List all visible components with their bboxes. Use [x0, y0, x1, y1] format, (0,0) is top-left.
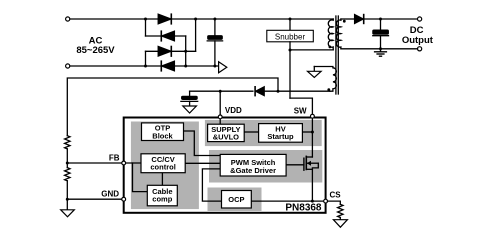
diode D1	[158, 14, 171, 24]
svg-text:&Gate Driver: &Gate Driver	[230, 166, 276, 175]
ground CS	[333, 220, 347, 228]
svg-text:85~265V: 85~265V	[76, 45, 115, 56]
wire bridge left vertical top	[145, 19, 147, 36]
wire CCCV to PWM	[185, 162, 220, 164]
wire bridge mid vertical	[185, 36, 187, 66]
DC output terminal top	[418, 17, 422, 21]
mosfet Q1	[304, 156, 318, 170]
wire R3 to ground	[339, 218, 341, 220]
wire SW internal	[311, 118, 313, 158]
box HV Startup	[259, 124, 303, 143]
transformer secondary winding	[336, 19, 341, 49]
primary polarity dot	[329, 46, 332, 49]
pin GND	[122, 197, 126, 201]
node source-CS	[311, 200, 314, 203]
node HV-SW	[311, 131, 314, 134]
svg-text:PN8368: PN8368	[285, 203, 322, 214]
diode D6 VDD	[255, 87, 264, 96]
pin SW	[311, 114, 315, 118]
wire secondary bottom	[341, 48, 418, 50]
node VDD	[219, 90, 222, 93]
snubber drop wire	[289, 19, 291, 30]
CS external wire	[328, 201, 341, 204]
wire PWM to OCP	[202, 169, 221, 201]
wire FB internal	[124, 162, 141, 164]
secondary polarity dot	[343, 20, 346, 23]
resistor R2	[65, 168, 70, 181]
diode D2	[161, 31, 174, 41]
wire bridge row3	[146, 50, 196, 52]
wire top AC bus	[70, 18, 334, 20]
svg-text:Output: Output	[402, 35, 434, 46]
AC input terminal bottom	[66, 64, 70, 68]
gray panel ocp	[208, 188, 262, 212]
box OCP	[222, 191, 252, 209]
wire VDD internal	[219, 118, 221, 125]
wire R1-R2	[66, 149, 68, 168]
svg-text:OCP: OCP	[228, 195, 244, 204]
aux polarity dot	[327, 88, 330, 91]
snubber box	[267, 30, 314, 42]
earth ground secondary	[375, 49, 387, 56]
wire to SW pin	[290, 98, 312, 114]
node GND divider	[66, 198, 69, 201]
box CC/CV control	[141, 154, 185, 173]
wire primary bottom	[290, 49, 333, 51]
node output cap bottom	[379, 47, 382, 50]
node bridge row3	[184, 50, 187, 53]
svg-text:Snubber: Snubber	[275, 32, 306, 41]
svg-text:control: control	[150, 163, 175, 172]
wire bridge left vertical bottom	[145, 51, 147, 66]
wire CCCV to cable comp	[161, 173, 163, 186]
wire source to CS	[312, 169, 325, 201]
ground VDD cap	[183, 106, 197, 113]
node snubber-primary	[289, 49, 292, 52]
secondary diode D5	[341, 15, 418, 24]
wire OTP to PWM	[184, 131, 221, 156]
wire supply to HV	[244, 131, 258, 133]
wire snubber to SW node	[289, 42, 291, 98]
node bottom line dots	[144, 65, 147, 68]
pin CS	[324, 199, 328, 203]
capacitor C2 output	[373, 19, 389, 49]
wire FB to cable comp	[133, 163, 148, 192]
box Cable comp	[147, 185, 177, 206]
diode D3	[158, 47, 171, 57]
DC output terminal bottom	[418, 47, 422, 51]
svg-text:FB: FB	[109, 154, 120, 163]
transformer primary winding	[328, 19, 333, 50]
GND wire	[67, 198, 122, 200]
pin VDD	[218, 115, 222, 119]
wire R2 to ground	[66, 181, 68, 210]
gray panel supply	[205, 120, 322, 146]
box PWM Switch Gate Driver	[220, 154, 286, 176]
svg-text:comp: comp	[152, 195, 172, 204]
wire OCP to CS	[251, 200, 312, 202]
svg-text:&UVLO: &UVLO	[213, 132, 239, 141]
svg-text:CS: CS	[330, 191, 342, 200]
svg-text:Startup: Startup	[267, 132, 294, 141]
aux arrow ground	[308, 67, 322, 78]
wire HV to SW net	[302, 131, 312, 133]
IC PN8368 outline	[124, 118, 326, 213]
capacitor C1 bulk	[207, 19, 222, 66]
node aux-FB	[277, 90, 280, 93]
FB wire	[67, 162, 122, 164]
ground divider	[61, 210, 75, 217]
node FB divider	[66, 162, 69, 165]
node output cap top	[379, 18, 382, 21]
wire bottom AC line	[70, 65, 219, 67]
gray panel pwm	[209, 150, 322, 183]
aux rectifier wire	[190, 90, 253, 92]
pin FB	[122, 161, 126, 165]
FB sense wire	[67, 78, 278, 136]
box OTP Block	[142, 123, 184, 141]
wire bridge row2	[146, 35, 186, 37]
transformer core lines	[335, 16, 337, 94]
wire bridge right vertical	[195, 19, 197, 51]
capacitor C3 VDD	[181, 91, 198, 106]
node top bus dots	[144, 18, 147, 21]
arrow right open (primary return)	[219, 62, 227, 73]
diode D4	[161, 61, 174, 71]
svg-text:GND: GND	[101, 190, 119, 199]
svg-text:VDD: VDD	[225, 106, 242, 115]
transformer aux winding	[314, 67, 336, 92]
box SUPPLY UVLO	[208, 124, 245, 141]
resistor R1	[65, 136, 70, 149]
VDD wire	[219, 91, 221, 114]
resistor R3	[338, 204, 343, 217]
gray panel left	[131, 122, 199, 210]
wire gate	[286, 164, 304, 166]
svg-text:Block: Block	[152, 131, 173, 140]
AC input terminal top	[66, 17, 70, 21]
svg-text:SW: SW	[294, 107, 307, 116]
